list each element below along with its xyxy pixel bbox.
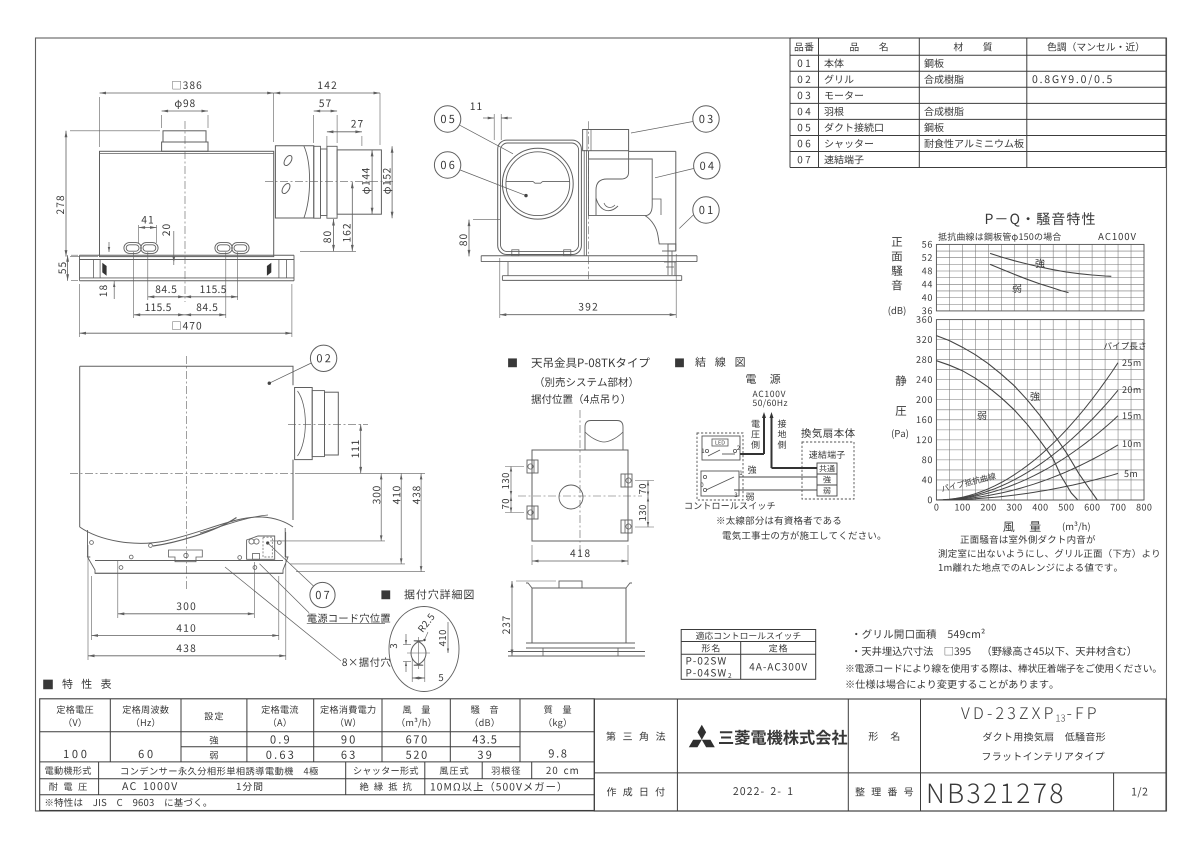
D2 anchor bolt detail: [664, 251, 676, 275]
chart subtitle: [938, 232, 1061, 241]
D3 duct stub: [295, 388, 313, 460]
D3 fan scroll arc: [153, 518, 237, 547]
D3 power cord label: [308, 613, 391, 623]
D2 balloon 05: [434, 106, 460, 132]
chart title P-Q 騒音特性: [986, 212, 1095, 226]
D1 adapter rings: [314, 146, 321, 218]
D3 mount base plate: [88, 557, 289, 573]
D2 motor box: [583, 130, 629, 151]
noise chart y labels: [922, 307, 932, 314]
hanger right dims 70 130: [647, 481, 649, 528]
wire from switch to power: [740, 453, 764, 455]
hanger dim 237: [511, 581, 513, 656]
control switch dashed outline: [697, 433, 743, 500]
ground side label: [778, 419, 786, 427]
D2 shutter split line: [506, 180, 533, 182]
noise curve strong: [990, 253, 1111, 276]
D3 center latch: [169, 550, 203, 562]
fan body dashed box: [802, 442, 854, 499]
D3 terminal box: [247, 536, 275, 559]
D2 right body: [629, 150, 676, 152]
D1 mounting slots left pair: [124, 243, 141, 254]
PQ chart y labels: [928, 496, 932, 503]
control switch table: [681, 630, 816, 680]
D2 shutter circle: [502, 148, 573, 219]
D1 dim 162: [351, 182, 353, 252]
D1 dim 18: [113, 281, 115, 299]
D3 grille outline: [80, 366, 293, 527]
control switch label: [685, 502, 774, 510]
pipe length labels: [1104, 342, 1145, 350]
D2 ceiling flange lines: [481, 255, 697, 257]
wiring note: [717, 516, 840, 525]
D2 scroll casing: [589, 159, 653, 216]
D2 motor lower: [589, 151, 629, 216]
D3 screws: [90, 541, 94, 545]
D1 dim 55: [67, 255, 69, 281]
D1 dim 20: [173, 231, 175, 265]
D1 dim phi152: [391, 146, 393, 218]
D2 balloon 03: [693, 106, 719, 132]
D3 duct centerline: [288, 423, 368, 425]
voltage side label: [752, 420, 760, 428]
D2 leader 05: [459, 125, 513, 154]
D1 small tick left: [108, 242, 110, 252]
D3 leader 02 with dot: [269, 363, 311, 383]
spec table (bottom left): [40, 699, 595, 811]
x axis label 風量: [1003, 521, 1040, 532]
title block (bottom right): [594, 699, 1166, 811]
D1 dim 142: [379, 93, 381, 145]
switch upper box: [702, 436, 740, 460]
D1 ceiling flange: [80, 254, 295, 256]
detail dim 410: [419, 652, 453, 654]
D1 spring clips: [102, 263, 106, 276]
hanger side view: [559, 581, 582, 588]
D2 dim 80: [468, 220, 470, 257]
wire weak: [734, 489, 817, 491]
D1 dims 84.5 115.5 row1: [147, 252, 149, 300]
D2 dim 11: [471, 103, 482, 110]
D2 grille frame rounded square: [498, 140, 582, 254]
noise chart grid: [936, 243, 1144, 245]
Mitsubishi three-diamond logo: [689, 725, 715, 748]
D2 leader 06 with dot: [460, 170, 526, 196]
notes above title block: [855, 629, 985, 639]
D2 leader 01: [679, 215, 693, 229]
D3 horizontal centerline: [70, 472, 300, 474]
D1 dim 80 right: [333, 219, 335, 251]
chart footnote: [960, 535, 1095, 544]
detail circle: [389, 607, 459, 692]
fan curve weak: [936, 361, 1077, 500]
D1 dims 115.5 84.5 row2: [133, 252, 135, 318]
switch lower box: [701, 471, 739, 496]
pipe resistance curve label: [941, 472, 996, 493]
D2 balloon 06: [434, 152, 460, 178]
D3 balloon 07: [310, 582, 335, 607]
hanger circle: [559, 485, 583, 509]
D1 duct connection box: [275, 146, 313, 218]
noise curve weak: [990, 264, 1068, 292]
D1 dim 27: [326, 136, 328, 152]
D1 dim 470: [79, 284, 81, 337]
spec table heading 特性表: [43, 680, 53, 690]
D3 mounting hole label: [342, 657, 390, 667]
hanger heading: [508, 358, 517, 367]
terminal boxes: [817, 463, 837, 496]
D1 dim 278: [65, 131, 67, 257]
D1 mounting slots right pair: [215, 243, 232, 254]
PQ chart grid: [936, 319, 1144, 321]
wire ground to common terminal: [772, 467, 818, 469]
fan curve strong: [936, 336, 1097, 500]
parts list table (top right): [790, 37, 1166, 39]
D2 dim 392: [499, 258, 501, 318]
D3 balloon 02: [310, 345, 336, 371]
D1 top duct collar: [163, 131, 206, 142]
wiring heading 結線図: [675, 358, 684, 367]
hanger dim 418: [531, 545, 533, 565]
detail slot: [411, 641, 426, 666]
D3 bottom dims 300 410 438: [117, 560, 119, 618]
D3 dim 111: [360, 424, 362, 473]
D2 balloon 04: [694, 153, 720, 179]
PQ x labels: [934, 504, 938, 511]
D2 leader 03: [631, 122, 693, 134]
D1 vertical centerline: [184, 121, 186, 302]
D2 leader 04: [655, 169, 694, 178]
D2 adapter verticals: [583, 150, 585, 256]
D2 center dash line: [588, 121, 590, 279]
D3 vertical centerline: [185, 356, 187, 590]
D3 leader 07: [268, 543, 314, 586]
D1 duct centerline: [265, 181, 395, 183]
D1 duct pipe: [337, 150, 381, 214]
D1 body outline: [100, 151, 274, 256]
fan body label: [801, 428, 855, 438]
hanger brackets: [527, 460, 538, 473]
D1 dim 57: [313, 115, 315, 143]
pipe resistance curves: [936, 473, 1118, 500]
hanger centerlines: [579, 410, 581, 556]
D1 flexible boot curve: [304, 146, 310, 218]
static pressure axis label 静圧(Pa): [896, 375, 907, 386]
D3 body below grille: [87, 530, 89, 557]
wire strong: [739, 476, 817, 478]
detail heading: [381, 590, 390, 599]
hanger top view square: [532, 450, 628, 541]
D3 right vertical dims 300 410 438: [380, 473, 382, 541]
power supply label: [746, 374, 780, 384]
hanger duct on top: [585, 421, 623, 451]
detail label R2.5: [418, 613, 435, 632]
D2 balloon 01: [693, 197, 719, 223]
detail dim 5: [411, 658, 413, 682]
detail dim 3: [403, 644, 411, 646]
D1 dim 41: [138, 225, 140, 243]
D1 bean holes: [282, 154, 293, 167]
D1 dim phi144: [371, 150, 373, 214]
hanger left dims 130 70: [510, 467, 512, 513]
D1 dim phi98: [161, 115, 163, 128]
supply arrows: [763, 417, 765, 454]
noise axis label 正面騒音(dB): [892, 237, 902, 246]
D2 bottom feet tabs: [512, 250, 519, 256]
D3 grille curved bottom: [80, 517, 293, 543]
D2 outlet bracket: [668, 244, 676, 251]
D1 dim 386: [99, 97, 101, 147]
D2 bell mouth: [596, 198, 618, 211]
